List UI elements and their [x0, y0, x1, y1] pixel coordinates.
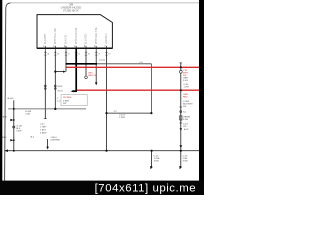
svg-text:A-21: A-21 — [184, 128, 189, 131]
svg-text:WHT/RED 7.5A: WHT/RED 7.5A — [95, 27, 98, 44]
svg-text:2 BLK: 2 BLK — [40, 129, 46, 131]
svg-text:WHT/GRN 10A: WHT/GRN 10A — [75, 27, 78, 44]
svg-text:BLK: BLK — [2, 137, 7, 139]
svg-text:BLU/RED: BLU/RED — [85, 33, 88, 44]
svg-text:[704x611] upic.me: [704x611] upic.me — [95, 183, 197, 195]
svg-text:C-11: C-11 — [40, 123, 45, 125]
svg-text:A-100: A-100 — [8, 97, 15, 100]
svg-text:GRN/BLK: GRN/BLK — [105, 33, 108, 44]
svg-text:2.0B: 2.0B — [25, 114, 30, 116]
svg-text:GRN: GRN — [183, 77, 188, 79]
svg-text:0.5G: 0.5G — [183, 80, 188, 82]
svg-text:0.5B RED: 0.5B RED — [50, 140, 60, 142]
svg-text:FUSE BOX: FUSE BOX — [63, 9, 78, 13]
svg-text:W2 RED: W2 RED — [63, 97, 72, 99]
svg-text:C-100: C-100 — [99, 59, 106, 61]
svg-text:1.25B: 1.25B — [119, 117, 125, 119]
svg-text:RED: RED — [183, 96, 188, 98]
svg-text:WHT/BLU 15A: WHT/BLU 15A — [54, 28, 57, 44]
svg-text:RED 2W: RED 2W — [88, 75, 97, 77]
svg-text:S201: S201 — [58, 86, 64, 88]
svg-text:BLK: BLK — [3, 117, 8, 119]
svg-text:BLK/YEL: BLK/YEL — [65, 34, 68, 44]
svg-text:BLK/WHT: BLK/WHT — [44, 33, 47, 44]
svg-text:W-21: W-21 — [58, 91, 64, 93]
svg-text:1 GRY: 1 GRY — [40, 126, 47, 128]
svg-text:J 2B 4: J 2B 4 — [50, 137, 57, 139]
svg-text:0.85W: 0.85W — [40, 132, 47, 134]
